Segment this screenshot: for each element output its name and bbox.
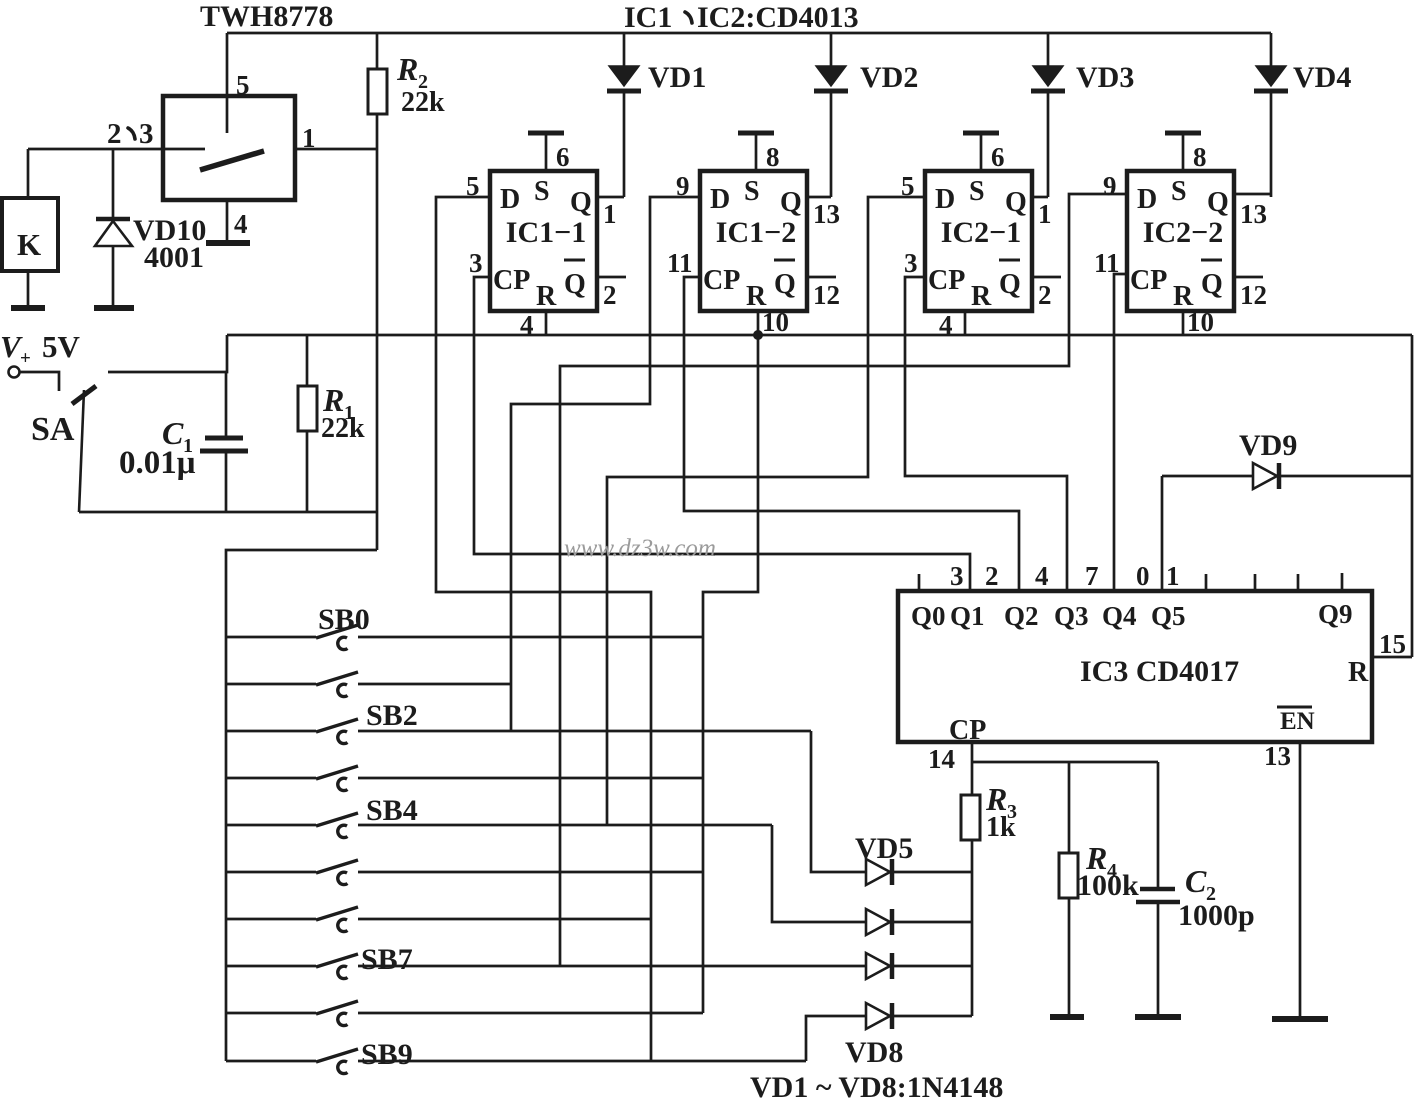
- TWH8778 pin 4 lead: [226, 200, 229, 241]
- svg-text:IC2:CD4013: IC2:CD4013: [697, 1, 859, 34]
- ground under C2: [1135, 1014, 1181, 1020]
- svg-text:100k: 100k: [1077, 869, 1139, 902]
- svg-text:22k: 22k: [321, 413, 365, 444]
- push button SB9 contact arm: [316, 1049, 358, 1062]
- push button SB7 left lead: [226, 965, 316, 968]
- svg-text:3: 3: [904, 248, 918, 278]
- svg-text:1000p: 1000p: [1178, 899, 1255, 932]
- IC3 CP pin 14 lead: [971, 742, 974, 795]
- wire K to ground: [27, 271, 30, 306]
- svg-text:12: 12: [813, 280, 840, 310]
- wire IC2-2 CP lead: [1114, 274, 1127, 591]
- diode VD3 symbol: [1033, 66, 1063, 86]
- push button SB0 right lead: [358, 636, 703, 639]
- push button SB2 contact arm: [316, 719, 358, 732]
- switch SA arm: [79, 390, 84, 512]
- push button SB2 actuator: [338, 731, 348, 743]
- IC3 pin stubs Q6 Q7 Q8: [1205, 574, 1208, 591]
- svg-text:5V: 5V: [42, 329, 81, 364]
- terminal V+ 5V: [9, 367, 20, 378]
- D flip-flop IC1−2 box: [700, 171, 807, 311]
- IC1−1 S pin tie-off: [545, 133, 548, 171]
- wire pin10 column to SB mesh: [703, 335, 758, 1013]
- diode VD1 lead from bus: [623, 33, 626, 66]
- TWH8778 pin 1 lead: [295, 148, 377, 151]
- diode VD10 lead bottom: [112, 246, 115, 306]
- wire IC2-2 D lead: [560, 194, 1127, 966]
- ground under K: [11, 305, 45, 311]
- svg-text:10: 10: [1187, 307, 1214, 337]
- IC2−1 R pin lead: [964, 311, 967, 335]
- wire VD9 to right bus: [1279, 475, 1412, 478]
- svg-text:CP: CP: [1130, 265, 1167, 296]
- svg-text:4001: 4001: [144, 241, 204, 274]
- push button SB7 contact arm: [316, 954, 358, 967]
- D flip-flop IC1−1 box: [490, 171, 597, 311]
- resistor R4 lead top: [1068, 762, 1071, 853]
- push button SB7 actuator: [338, 966, 348, 978]
- push button SB6 left lead: [226, 918, 316, 921]
- svg-text:IC2−1: IC2−1: [941, 216, 1021, 249]
- svg-text:SB2: SB2: [366, 699, 418, 732]
- diode VD8 symbol: [866, 1003, 890, 1029]
- svg-text:6: 6: [556, 142, 570, 172]
- svg-text:R: R: [1348, 657, 1369, 688]
- diode VD7 output lead: [892, 965, 972, 968]
- svg-text:S: S: [969, 176, 985, 207]
- IC2−1 Qbar stub pin 2: [1032, 276, 1061, 279]
- push button SB8 actuator: [338, 1013, 348, 1025]
- wire IC2-1 CP lead: [905, 277, 1067, 591]
- svg-text:6: 6: [991, 142, 1005, 172]
- svg-text:10: 10: [762, 307, 789, 337]
- diode VD4 symbol: [1256, 66, 1286, 86]
- svg-text:S: S: [744, 176, 760, 207]
- push button SB3 actuator: [338, 778, 348, 790]
- svg-text:22k: 22k: [401, 87, 445, 118]
- IC3 unconnected pin stub left of Q0: [918, 574, 921, 591]
- svg-text:SB4: SB4: [366, 794, 418, 827]
- svg-text:9: 9: [1103, 171, 1117, 201]
- push button SB8 left lead: [226, 1012, 316, 1015]
- resistor R3 body: [961, 795, 980, 840]
- svg-text:4: 4: [234, 209, 248, 239]
- push button SB9 actuator: [338, 1061, 348, 1073]
- svg-text:8: 8: [1193, 142, 1207, 172]
- D flip-flop IC2−2 box: [1127, 171, 1234, 311]
- junction dot IC1-2 pin 10 on reset bus: [753, 330, 763, 340]
- svg-text:Q5: Q5: [1151, 601, 1186, 631]
- capacitor C2 plates: [1140, 887, 1175, 892]
- svg-text:Q1: Q1: [950, 601, 985, 631]
- svg-text:1: 1: [603, 199, 617, 229]
- push button SB0 actuator: [338, 637, 348, 649]
- svg-text:+: +: [20, 348, 31, 369]
- svg-text:3: 3: [139, 118, 154, 150]
- push button SB8 contact arm: [316, 1001, 358, 1014]
- svg-text:IC2−2: IC2−2: [1143, 216, 1223, 249]
- svg-text:7: 7: [1085, 561, 1099, 591]
- push button SB6 right lead: [358, 918, 651, 921]
- svg-text:2: 2: [107, 118, 122, 150]
- push button SB3 right lead: [358, 777, 703, 780]
- svg-text:SA: SA: [31, 411, 75, 448]
- IC2−2 R pin lead: [1182, 311, 1185, 335]
- wire diode summing column: [971, 840, 974, 1016]
- wire x227 bus drop to C1 top: [108, 335, 227, 372]
- diode VD10 lead top: [112, 149, 115, 219]
- TWH8778 pin 5 lead: [226, 33, 229, 133]
- push button SB7 right lead: [358, 965, 866, 968]
- svg-text:IC3 CD4017: IC3 CD4017: [1080, 655, 1239, 688]
- diode VD3 lead bottom: [1047, 91, 1050, 197]
- svg-text:Q4: Q4: [1102, 601, 1137, 631]
- wire V+ to SA: [20, 372, 59, 391]
- svg-text:VD1 ~ VD8:1N4148: VD1 ~ VD8:1N4148: [750, 1071, 1003, 1099]
- ground under EN: [1272, 1016, 1328, 1022]
- IC1−1 Qbar stub pin 2: [597, 276, 626, 279]
- TWH8778 pin 2,3 lead: [28, 148, 205, 151]
- resistor R1 lead top: [306, 335, 309, 386]
- svg-text:8: 8: [766, 142, 780, 172]
- wire K to pin 2,3: [27, 149, 30, 198]
- svg-text:Q3: Q3: [1054, 601, 1089, 631]
- svg-text:13: 13: [1264, 741, 1291, 771]
- wire IC2-1 D lead: [607, 197, 925, 825]
- IC2−2 Qbar stub pin 12: [1234, 276, 1263, 279]
- wire IC1-1 D lead: [436, 197, 651, 1061]
- push button SB5 actuator: [338, 872, 348, 884]
- svg-text:D: D: [935, 184, 955, 215]
- wire SB4 jog down to VD6 row: [772, 825, 866, 922]
- capacitor C1 plates: [205, 436, 243, 441]
- svg-text:0.01μ: 0.01μ: [119, 445, 196, 481]
- wire IC1-2 D lead: [511, 197, 700, 731]
- push button SB3 left lead: [226, 777, 316, 780]
- IC1−2 S pin tie-off: [755, 133, 758, 171]
- IC3 EN pin 13 lead: [1299, 742, 1302, 1017]
- svg-text:D: D: [500, 184, 520, 215]
- svg-text:11: 11: [667, 248, 693, 278]
- IC2−1 S pin tie-off: [980, 133, 983, 171]
- diode VD9 feed line: [1162, 475, 1253, 478]
- svg-text:R: R: [396, 51, 418, 87]
- push button SB1 left lead: [226, 683, 316, 686]
- capacitor C2 lead bottom: [1157, 904, 1160, 1015]
- svg-text:1k: 1k: [986, 812, 1016, 843]
- diode VD5 output lead: [892, 871, 972, 874]
- IC1−2 Qbar stub pin 12: [807, 276, 836, 279]
- diode VD3 lead from bus: [1047, 33, 1050, 66]
- push button SB6 actuator: [338, 919, 348, 931]
- svg-text:VD9: VD9: [1239, 429, 1297, 462]
- svg-text:D: D: [710, 184, 730, 215]
- svg-text:R: R: [971, 281, 992, 312]
- push button SB4 right lead: [358, 824, 772, 827]
- svg-text:Q9: Q9: [1318, 599, 1353, 629]
- push button SB1 contact arm: [316, 672, 358, 685]
- svg-text:2: 2: [985, 561, 999, 591]
- push button SB5 left lead: [226, 871, 316, 874]
- push button SB9 right lead: [358, 1060, 806, 1063]
- TWH8778 internal switch contact: [200, 151, 264, 170]
- svg-text:CP: CP: [493, 265, 530, 296]
- svg-text:CP: CP: [928, 265, 965, 296]
- wire R2 column to SB bus: [226, 550, 377, 1061]
- IC2−2 S pin tie-off: [1182, 133, 1185, 171]
- capacitor C1 stem bottom: [225, 453, 228, 512]
- wire VD9 column to IC3 Q4: [1161, 476, 1164, 591]
- push button SB2 right lead: [358, 730, 811, 733]
- wire IC2-1 Q to VD3: [1032, 196, 1048, 199]
- svg-text:1: 1: [302, 123, 316, 153]
- svg-text:0: 0: [1136, 561, 1150, 591]
- ground under VD10: [94, 305, 134, 311]
- relay K box: [2, 198, 58, 271]
- svg-text:S: S: [1171, 176, 1187, 207]
- push button SB1 actuator: [338, 684, 348, 696]
- svg-text:SB0: SB0: [318, 603, 370, 636]
- push button SB4 actuator: [338, 825, 348, 837]
- svg-text:VD1: VD1: [648, 61, 706, 94]
- svg-text:www.dz3w.com: www.dz3w.com: [564, 535, 716, 562]
- svg-text:1: 1: [1038, 199, 1052, 229]
- svg-text:CP: CP: [703, 265, 740, 296]
- wire IC1-2 Q to VD2: [807, 196, 831, 199]
- TWH8778 block U-switch: [163, 96, 295, 200]
- svg-text:K: K: [17, 227, 41, 262]
- svg-text:3: 3: [469, 248, 483, 278]
- resistor R4 body: [1059, 853, 1078, 898]
- svg-text:2: 2: [603, 280, 617, 310]
- svg-text:Q: Q: [780, 187, 802, 218]
- ground under R4: [1050, 1014, 1084, 1020]
- diode VD5 symbol: [866, 859, 890, 885]
- push button SB2 left lead: [226, 730, 316, 733]
- diode VD4 lead from bus: [1270, 33, 1273, 66]
- wire IC1-2 CP lead: [684, 277, 1019, 591]
- wire IC1-1 CP lead: [474, 277, 970, 591]
- diode VD2 lead from bus: [830, 33, 833, 66]
- wire CP node branch: [972, 761, 1158, 764]
- wire SB2 jog down to VD5 row: [811, 731, 866, 872]
- svg-text:VD4: VD4: [1293, 61, 1351, 94]
- push button SB9 left lead: [226, 1060, 316, 1063]
- IC1−2 R pin lead: [757, 311, 760, 335]
- IC3 R pin 15 stub: [1372, 656, 1412, 659]
- svg-text:Q: Q: [1005, 187, 1027, 218]
- push button SB4 contact arm: [316, 813, 358, 826]
- diode VD2 lead bottom: [830, 91, 833, 197]
- push button SB1 right lead: [358, 683, 511, 686]
- svg-text:Q: Q: [570, 187, 592, 218]
- diode VD2 symbol: [816, 66, 846, 86]
- wire reset bus right drop to pin 15: [1411, 335, 1414, 657]
- svg-text:IC1: IC1: [624, 1, 672, 34]
- diode VD9 symbol: [1253, 463, 1277, 489]
- svg-text:IC1−1: IC1−1: [506, 216, 586, 249]
- push button SB5 right lead: [358, 871, 703, 874]
- push button SB3 contact arm: [316, 766, 358, 779]
- svg-text:TWH8778: TWH8778: [200, 0, 333, 33]
- svg-text:VD5: VD5: [855, 832, 913, 865]
- push button SB6 contact arm: [316, 907, 358, 920]
- svg-text:SB9: SB9: [361, 1038, 413, 1071]
- svg-text:C: C: [1185, 863, 1207, 899]
- svg-text:S: S: [534, 176, 550, 207]
- wire IC1-1 Q to VD1: [597, 196, 624, 199]
- diode VD6 output lead: [892, 921, 972, 924]
- IC3 CD4017 box: [898, 591, 1372, 742]
- svg-text:3: 3: [950, 561, 964, 591]
- svg-text:CP: CP: [949, 715, 986, 746]
- push button SB8 right lead: [358, 1012, 703, 1015]
- svg-text:D: D: [1137, 184, 1157, 215]
- svg-text:2: 2: [1038, 280, 1052, 310]
- diode VD1 symbol: [609, 66, 639, 86]
- svg-text:Q: Q: [774, 269, 796, 300]
- svg-text:VD2: VD2: [860, 61, 918, 94]
- svg-text:Q0: Q0: [911, 601, 946, 631]
- IC3 pin stub Q9: [1341, 573, 1344, 591]
- resistor R2 lead top: [376, 33, 379, 69]
- svg-text:12: 12: [1240, 280, 1267, 310]
- wire reset bus: [227, 334, 1412, 337]
- svg-text:5: 5: [236, 70, 250, 100]
- push button SB0 left lead: [226, 636, 316, 639]
- svg-text:IC1−2: IC1−2: [716, 216, 796, 249]
- resistor R4 lead bottom: [1068, 898, 1071, 1015]
- switch SA fixed contact: [72, 386, 96, 404]
- diode VD7 symbol: [866, 953, 890, 979]
- IC1−1 R pin lead: [545, 311, 548, 335]
- push button SB4 left lead: [226, 824, 316, 827]
- svg-text:Q: Q: [1201, 269, 1223, 300]
- svg-text:Q: Q: [999, 269, 1021, 300]
- svg-text:Q2: Q2: [1004, 601, 1039, 631]
- svg-text:13: 13: [1240, 199, 1267, 229]
- svg-text:VD8: VD8: [845, 1036, 903, 1069]
- resistor R2 body: [368, 69, 387, 114]
- wire bottom rail SA-C1-R1-R2col: [79, 511, 377, 514]
- resistor R1 lead bottom: [306, 431, 309, 512]
- diode VD4 lead bottom: [1270, 91, 1273, 197]
- diode VD10 symbol: [96, 217, 130, 222]
- diode VD8 output lead: [892, 1015, 972, 1018]
- resistor R2 lead bottom: [376, 114, 379, 550]
- capacitor C1 stem top: [225, 372, 228, 436]
- svg-text:13: 13: [813, 199, 840, 229]
- svg-text:SB7: SB7: [361, 943, 413, 976]
- wire IC2-2 Q to VD4: [1234, 193, 1271, 196]
- wire SB9 jog up to VD8 row: [806, 1016, 866, 1061]
- svg-text:14: 14: [928, 744, 955, 774]
- svg-text:VD3: VD3: [1076, 61, 1134, 94]
- push button SB5 contact arm: [316, 860, 358, 873]
- svg-text:15: 15: [1379, 629, 1406, 659]
- svg-text:4: 4: [1035, 561, 1049, 591]
- push button SB0 contact arm: [316, 625, 358, 638]
- svg-text:R: R: [536, 281, 557, 312]
- svg-text:Q: Q: [564, 269, 586, 300]
- svg-text:1: 1: [1166, 561, 1180, 591]
- diode VD6 symbol: [866, 909, 890, 935]
- svg-text:EN: EN: [1280, 708, 1315, 735]
- svg-text:Q: Q: [1207, 187, 1229, 218]
- resistor R1 body: [298, 386, 317, 431]
- diode VD1 lead bottom: [623, 91, 626, 197]
- ground at TWH8778 pin 4: [206, 240, 250, 246]
- wire top supply bus: [227, 32, 1271, 35]
- D flip-flop IC2−1 box: [925, 171, 1032, 311]
- capacitor C2 lead top: [1157, 762, 1160, 887]
